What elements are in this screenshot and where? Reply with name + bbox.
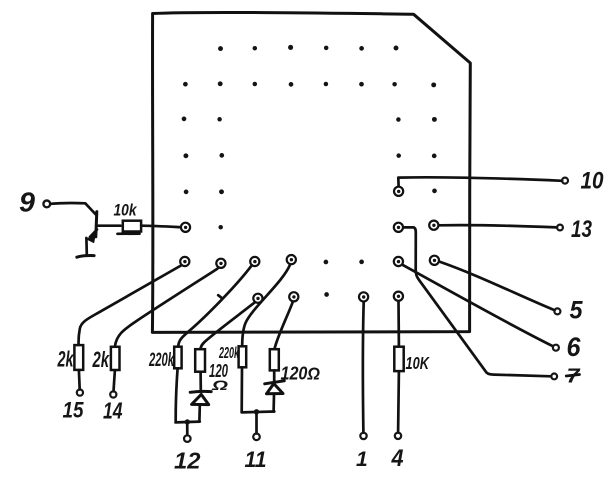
wire pad C7R8 to resistor R8 [397,302,400,347]
IC body outline U1 [152,12,470,332]
svg-text:12: 12 [174,448,201,474]
resistor R6 220k body [239,346,247,367]
diode D2 [265,381,285,394]
pad C4R8 [289,292,298,301]
svg-text:10k: 10k [114,202,138,220]
wire junction to pin 11 [255,412,258,433]
pad C1R6 [181,223,190,232]
label pin 5 [570,297,584,325]
wire junction to pin 12 [186,422,189,435]
wire R6 to junction 11 [240,367,243,412]
pad C2R7 [216,259,225,268]
wire pad C8R7 to pin 5 [439,262,554,311]
pad C6R8 [359,292,368,301]
pin 7 terminal circle [551,374,557,380]
pin 13 terminal circle [557,225,563,231]
svg-text:1: 1 [356,448,368,471]
wire R3 to pin 14 [114,370,115,391]
pin 14 terminal circle [110,391,116,397]
pad C8R7 [430,256,439,265]
pad C7R7 [394,257,403,266]
pad C4R7 [287,255,296,264]
wire R1 to pad C1R6 [141,226,180,228]
label 220k R6 [218,345,239,362]
pin 11 terminal circle [253,434,260,441]
wire pad C2R7 to resistor R3 [115,269,217,347]
label pin 7 [566,365,581,388]
transistor Q1 [86,212,120,255]
svg-text:15: 15 [63,398,85,423]
label 10K R8 [406,353,430,373]
label pin 1 [356,448,368,471]
pin 6 terminal circle [553,345,559,351]
pad C1R7 [180,257,189,266]
label pin 9 [19,187,35,218]
pad C7R5 [394,187,403,196]
wire D2 to junction 11 [272,394,275,411]
wire R5 to diode D1 [199,372,202,391]
resistor R7 120 body [270,349,279,370]
pad C7R8 [394,292,403,301]
pad C3R7 [250,257,259,266]
pin 15 terminal circle [77,390,83,396]
wire pad C4R8 to resistor R7 [275,302,293,349]
svg-text:13: 13 [571,216,593,243]
wire R8 to pin 4 [397,371,400,432]
wire pad C4R7 to resistor R6 [242,265,290,346]
diode D1 [190,391,211,404]
svg-text:120Ω: 120Ω [281,363,321,383]
ground [77,256,94,258]
svg-text:2k: 2k [92,347,110,372]
resistor R8 10K body [394,347,403,371]
label 220k R4 [148,350,174,371]
label pin 4 [391,445,404,472]
resistor R1 10k body [118,221,142,234]
svg-text:Ω: Ω [211,377,229,393]
wire pad C8R6 to pin 13 [439,225,557,227]
label 2k R2 [57,347,75,372]
label 120 ohm R5 [209,361,228,393]
svg-text:6: 6 [567,332,582,362]
pin 4 terminal circle [395,433,401,439]
resistor R3 2k body [111,347,120,370]
label pin 6 [567,332,582,362]
wire pad C3R7 to resistor R4 [178,265,252,346]
label pin 10 [581,167,604,194]
wire D1 to junction 12 [198,405,201,421]
pin 5 terminal circle [554,308,560,314]
wire R7 to diode D2 [273,371,276,382]
pin 9 terminal circle [43,201,50,208]
junction line net 12 [176,420,200,423]
svg-text:14: 14 [103,397,123,423]
junction dot net 11 [254,409,259,414]
pad C7R6 [394,223,403,232]
pin 10 terminal circle [562,178,568,184]
svg-text:4: 4 [391,445,404,472]
wire pad C1R7 to resistor R2 [79,266,181,345]
junction dot net 12 [185,419,190,424]
svg-text:2k: 2k [57,347,75,372]
wire pad C7R7 to pin 6 [403,265,553,346]
wire pad C3R8 to resistor R5 [201,303,255,349]
svg-text:220k: 220k [218,345,239,362]
svg-text:10: 10 [581,167,604,194]
label pin 14 [103,397,123,423]
wire R2 to pin 15 [78,370,81,389]
svg-text:10K: 10K [406,353,430,373]
junction line net 11 [242,410,275,414]
wire R4 to junction 12 [176,369,178,422]
svg-text:11: 11 [245,447,267,472]
pin 1 terminal circle [360,433,366,439]
wire pad C6R8 to pin 1 [362,302,365,433]
stray tick mark [218,295,221,297]
wire 9 to transistor base [51,203,96,214]
label pin 15 [63,398,85,423]
wire pad C7R5 to pin 10 [398,177,562,186]
label 120 ohm R7 [281,363,321,383]
wire pad C7R6 to pin 7 [403,227,551,376]
pin 12 terminal circle [184,435,191,442]
pad C3R8 [253,294,262,303]
resistor R4 220k body [174,347,181,369]
label pin 12 [174,448,201,474]
pad C8R6 [429,221,438,230]
resistor R5 120 body [195,349,205,372]
label pin 11 [245,447,267,472]
label 10k [114,202,138,220]
resistor R2 2k body [74,345,83,370]
svg-text:9: 9 [19,187,35,218]
svg-text:5: 5 [570,297,584,325]
label pin 13 [571,216,593,243]
label 2k R3 [92,347,110,372]
svg-text:220k: 220k [148,350,174,371]
